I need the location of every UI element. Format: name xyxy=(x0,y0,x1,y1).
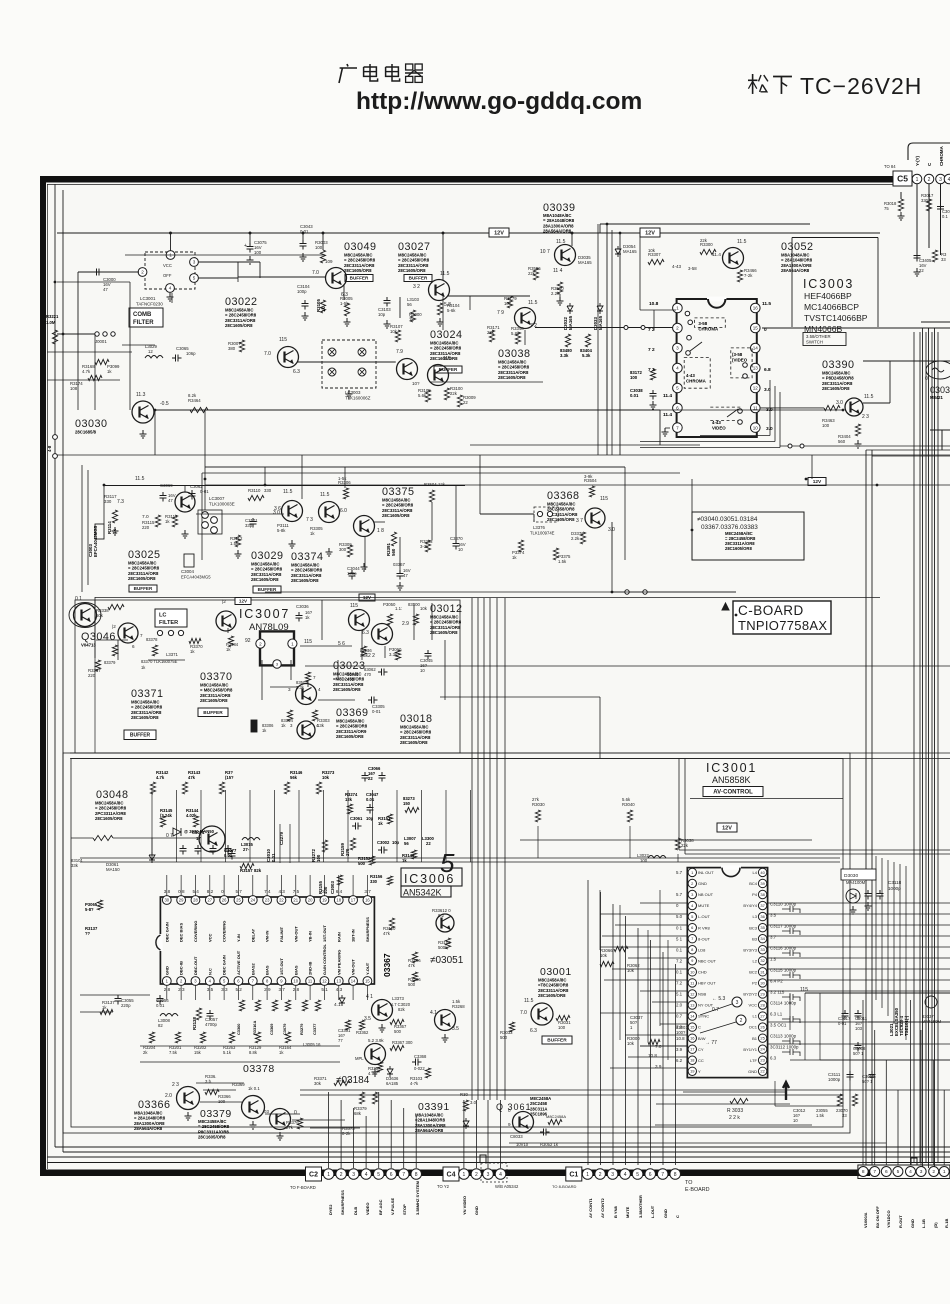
svg-text:22k: 22k xyxy=(487,330,495,335)
filter C3003 rotated xyxy=(95,524,104,539)
svg-text:7: 7 xyxy=(661,1172,664,1178)
svg-text:115: 115 xyxy=(304,639,312,645)
svg-text:CY: CY xyxy=(698,1047,704,1052)
IC3003 switch bottom circles xyxy=(738,409,743,414)
svg-text:10: 10 xyxy=(753,425,759,430)
wire long horizontals above connector xyxy=(300,1089,843,1091)
svg-text:2.9: 2.9 xyxy=(402,621,409,627)
resistor R3100c xyxy=(445,938,450,949)
wire top supply rail 12V xyxy=(57,232,880,234)
svg-text:3-9k: 3-9k xyxy=(584,474,593,479)
svg-text:27-: 27- xyxy=(243,847,250,852)
svg-text:470: 470 xyxy=(347,677,355,682)
svg-text:83379: 83379 xyxy=(104,660,116,665)
svg-text:28C1605/OR8: 28C1605/OR8 xyxy=(538,993,566,998)
svg-text:3.58MHZ SYSTEM: 3.58MHZ SYSTEM xyxy=(415,1180,420,1215)
svg-text:220: 220 xyxy=(88,673,96,678)
svg-text:35: 35 xyxy=(760,925,765,930)
svg-text:3-3k: 3-3k xyxy=(420,544,429,549)
transistor Q3046 shielded xyxy=(74,604,97,627)
svg-text:5.7: 5.7 xyxy=(676,892,683,897)
svg-text:-0.5: -0.5 xyxy=(160,401,169,407)
svg-text:30: 30 xyxy=(760,980,765,985)
svg-text:100: 100 xyxy=(254,250,262,255)
wire Q3035 collector xyxy=(571,233,573,246)
coil L3005 xyxy=(160,1014,178,1017)
svg-text:7 3: 7 3 xyxy=(306,517,313,523)
LC3001 pin 5 xyxy=(190,274,199,283)
svg-text:75: 75 xyxy=(884,206,889,211)
IC3001 top notch xyxy=(721,865,741,869)
transistor Q3051 xyxy=(436,914,454,932)
svg-text:DBC GAIN: DBC GAIN xyxy=(164,922,169,942)
svg-text:3: 3 xyxy=(352,1172,355,1178)
svg-text:YN VIDEO: YN VIDEO xyxy=(462,1196,467,1215)
resistor row y1050 xyxy=(149,1032,154,1043)
connector C1 pins xyxy=(582,1169,593,1180)
svg-text:Y-(Y): Y-(Y) xyxy=(915,155,920,166)
svg-text:1000p: 1000p xyxy=(888,886,901,891)
svg-text:1ST-OUT: 1ST-OUT xyxy=(322,925,327,942)
svg-text:12: 12 xyxy=(753,386,759,391)
svg-text:28A564A/OR8: 28A564A/OR8 xyxy=(415,1128,444,1133)
svg-text:BUFFER: BUFFER xyxy=(258,587,277,592)
svg-text:470: 470 xyxy=(364,672,372,677)
wire 12V rail ic3001 xyxy=(520,839,812,841)
svg-text:LC: LC xyxy=(159,613,166,619)
svg-text:2: 2 xyxy=(340,1172,343,1178)
IC3003 dashed 3-58 video xyxy=(731,348,752,378)
svg-text:18: 18 xyxy=(336,898,341,903)
wire C5 pin risers xyxy=(916,184,918,260)
svg-text:1: 1 xyxy=(586,1172,589,1178)
svg-text:L-OUT: L-OUT xyxy=(698,914,711,919)
svg-text:5: 5 xyxy=(897,1169,900,1175)
svg-text:4: 4 xyxy=(499,1172,502,1178)
svg-text:AN5858K: AN5858K xyxy=(712,775,751,785)
wire right bus verticals from C5 area xyxy=(922,328,924,1168)
wire 2nd row top border xyxy=(202,472,680,474)
buffer tag 03001 xyxy=(542,1036,572,1044)
svg-text:26: 26 xyxy=(222,898,227,903)
svg-text:BX ON OFF: BX ON OFF xyxy=(875,1206,880,1228)
capacitor C3405 xyxy=(914,252,921,262)
connector right strip xyxy=(858,1165,950,1179)
resistor R3361 R3362 xyxy=(345,1020,350,1030)
capacitor C3069 xyxy=(160,492,167,502)
svg-text:MA165: MA165 xyxy=(623,249,637,254)
IC3001 left pins xyxy=(688,868,696,876)
diode box D3030 xyxy=(841,869,876,880)
wire riser bundle right connector xyxy=(862,1000,864,1165)
svg-text:6.8: 6.8 xyxy=(764,367,771,373)
svg-text:115: 115 xyxy=(350,603,358,609)
svg-text:1.5k: 1.5k xyxy=(452,999,461,1004)
svg-text:9: 9 xyxy=(508,1122,511,1127)
wire verticals lower right xyxy=(774,1081,776,1106)
frame inner hairline xyxy=(47,184,893,186)
svg-text:7.5k: 7.5k xyxy=(169,1050,178,1055)
resistor R3465 xyxy=(463,1100,468,1111)
svg-text:27k: 27k xyxy=(532,797,540,802)
wire right bus horizontal joins xyxy=(866,449,950,451)
svg-text:4.02k: 4.02k xyxy=(186,813,197,818)
svg-text:AV·CONTROL: AV·CONTROL xyxy=(713,790,753,796)
resistor R3404b xyxy=(855,424,860,436)
resistor R3206 xyxy=(412,972,417,982)
transistor Q3390 xyxy=(845,398,863,416)
resistor R3009 xyxy=(457,395,462,407)
svg-text:7.0: 7.0 xyxy=(264,351,271,357)
connector C1 box xyxy=(566,1167,582,1181)
wire long mid horizontal xyxy=(305,665,950,667)
svg-text:11.3: 11.3 xyxy=(136,392,146,398)
svg-text:C3115 1000p: C3115 1000p xyxy=(770,968,797,973)
ground row second block xyxy=(182,530,189,538)
capacitor C3008 xyxy=(855,1042,862,1052)
dashed delay line LC3003 box xyxy=(322,340,376,388)
svg-text:28C1605/OR8: 28C1605/OR8 xyxy=(498,375,526,380)
coil L3371 pins xyxy=(157,630,162,635)
svg-text:03052: 03052 xyxy=(781,241,814,253)
svg-text:4.3: 4.3 xyxy=(336,987,343,992)
svg-text:10: 10 xyxy=(690,969,695,974)
svg-text:C: C xyxy=(698,1025,701,1030)
wire comb out to Q3049 xyxy=(237,262,239,277)
small rect pair xyxy=(251,720,257,732)
svg-text:(3.24k: (3.24k xyxy=(160,813,173,818)
svg-text:R3157: R3157 xyxy=(240,868,253,873)
svg-text:6.3 L1: 6.3 L1 xyxy=(770,1012,783,1017)
svg-text:5.2 3.9k: 5.2 3.9k xyxy=(368,1038,384,1043)
svg-text:03012: 03012 xyxy=(430,603,463,615)
svg-text:28C1605/OR8: 28C1605/OR8 xyxy=(547,517,575,522)
IC3003 left pins xyxy=(673,303,683,313)
wire R3033 row xyxy=(683,1091,786,1093)
wire left bus bottom joins xyxy=(55,1146,950,1148)
IC3003 dashed 3-58 chroma xyxy=(695,318,726,328)
svg-text:|2: |2 xyxy=(222,599,226,604)
resistor R3018 xyxy=(898,199,903,211)
svg-text:12V: 12V xyxy=(813,479,822,485)
svg-text:4.7k: 4.7k xyxy=(82,369,91,374)
svg-text:10k: 10k xyxy=(600,953,608,958)
svg-text:TO Y2: TO Y2 xyxy=(437,1184,450,1189)
svg-text:100?: 100? xyxy=(676,1030,686,1035)
svg-text:10 7: 10 7 xyxy=(540,249,550,255)
transistor Q3379b xyxy=(270,1109,291,1130)
svg-text:100p: 100p xyxy=(297,289,307,294)
IC3007 regulator box xyxy=(260,631,294,665)
svg-text:BC3: BC3 xyxy=(749,925,758,930)
wire Q3049 emitter xyxy=(343,285,345,300)
svg-text:1k 0.1: 1k 0.1 xyxy=(248,1086,260,1091)
IC3001 right pin cap symbols xyxy=(782,906,800,913)
svg-text:DBC-OUT: DBC-OUT xyxy=(193,956,198,975)
frame top-right rounded block corner xyxy=(908,143,950,160)
svg-text:28A564A/OR8: 28A564A/OR8 xyxy=(543,229,572,234)
svg-text:25: 25 xyxy=(760,1036,765,1041)
svg-text:BUFFER: BUFFER xyxy=(130,733,151,739)
svg-text:4.1: 4.1 xyxy=(430,1010,437,1016)
svg-text:3.3k: 3.3k xyxy=(560,353,569,358)
svg-text:28C1605/OR8: 28C1605/OR8 xyxy=(336,734,364,739)
svg-text:15: 15 xyxy=(753,326,759,331)
svg-text:MA4100M: MA4100M xyxy=(846,880,866,885)
svg-text:2: 2 xyxy=(259,641,262,646)
svg-text:2.0: 2.0 xyxy=(676,1003,683,1008)
svg-text:24: 24 xyxy=(760,1047,765,1052)
svg-text:BC4: BC4 xyxy=(749,881,758,886)
svg-text:HBY OUT: HBY OUT xyxy=(698,981,716,986)
svg-text:0-01: 0-01 xyxy=(838,1021,847,1026)
svg-text:0: 0 xyxy=(321,889,324,894)
capacitor C3066 cluster xyxy=(362,772,369,782)
svg-text:10k: 10k xyxy=(420,606,428,611)
svg-text:L1: L1 xyxy=(753,1014,758,1019)
svg-text:IC3006: IC3006 xyxy=(404,872,455,886)
svg-text:4-8: 4-8 xyxy=(47,445,52,452)
svg-text:3.8: 3.8 xyxy=(164,889,171,894)
svg-text:C8033: C8033 xyxy=(510,1134,523,1139)
svg-text:GAIN CONTROL: GAIN CONTROL xyxy=(322,944,327,975)
svg-text:C3117 1000p: C3117 1000p xyxy=(770,924,797,929)
svg-text:AN5342K: AN5342K xyxy=(403,888,442,898)
svg-text:C5: C5 xyxy=(897,174,908,184)
svg-text:3-58: 3-58 xyxy=(688,266,697,271)
svg-text:03024: 03024 xyxy=(430,329,463,341)
svg-text:5.7: 5.7 xyxy=(235,889,242,894)
svg-text:C2: C2 xyxy=(309,1172,318,1179)
svg-text:28A564A/OR8: 28A564A/OR8 xyxy=(134,1126,163,1131)
svg-text:500: 500 xyxy=(394,1029,402,1034)
svg-text:6: 6 xyxy=(885,1169,888,1175)
svg-text:500: 500 xyxy=(408,982,416,987)
svg-text:CC: CC xyxy=(698,1058,704,1063)
svg-text:7.0: 7.0 xyxy=(655,1044,662,1049)
svg-text:560: 560 xyxy=(391,548,396,556)
resistor R3101 xyxy=(93,835,113,840)
svg-text:CHROMA: CHROMA xyxy=(698,327,719,332)
svg-text:SYNC: SYNC xyxy=(698,1014,709,1019)
svg-text:21: 21 xyxy=(293,898,298,903)
svg-text:28C1605/OR8: 28C1605/OR8 xyxy=(725,546,752,551)
svg-text:NBC OUT: NBC OUT xyxy=(698,958,717,963)
ground Q3030 xyxy=(140,430,147,438)
svg-text:1: 1 xyxy=(676,306,679,311)
svg-text:3.9: 3.9 xyxy=(676,1047,683,1052)
transistor Q3038a xyxy=(515,308,536,329)
resistor R3040 xyxy=(627,810,632,822)
svg-text:+: + xyxy=(244,243,247,249)
svg-text:0.7: 0.7 xyxy=(676,1014,683,1019)
svg-text:28C1605/OR8: 28C1605/OR8 xyxy=(822,386,850,391)
svg-text:BIAS2: BIAS2 xyxy=(250,962,255,975)
resistor R3038 xyxy=(675,838,680,850)
transistor Q3001 xyxy=(531,1003,553,1025)
svg-text:R3110: R3110 xyxy=(248,488,261,493)
capacitor C3045 xyxy=(425,650,432,660)
svg-text:IC3007: IC3007 xyxy=(239,607,290,621)
wire J0001 row xyxy=(57,333,95,335)
resistor R3373 xyxy=(372,1092,377,1104)
svg-text:3.0: 3.0 xyxy=(470,1100,477,1105)
tag 12V boxed mid xyxy=(808,478,826,486)
svg-text:COVERING: COVERING xyxy=(193,921,198,942)
resistor R3107 xyxy=(395,330,400,342)
svg-text:D3030: D3030 xyxy=(844,873,858,879)
svg-text:BUFFER: BUFFER xyxy=(409,276,428,281)
resistor R3309 xyxy=(347,545,352,557)
svg-text:77: 77 xyxy=(338,1038,343,1043)
svg-text:33k: 33k xyxy=(71,863,79,868)
capacitor C3071 C3072 C3073 row xyxy=(180,845,187,855)
resistor R3377b xyxy=(112,645,117,656)
svg-text:11.5: 11.5 xyxy=(440,271,450,277)
svg-text:32: 32 xyxy=(760,958,765,963)
transistor Q3022 xyxy=(278,347,299,368)
svg-text:TLK100003E: TLK100003E xyxy=(209,502,235,507)
svg-text:15: 15 xyxy=(690,1025,695,1030)
transistor Q3024 xyxy=(428,365,449,386)
svg-text:3: 3 xyxy=(676,346,679,351)
resistor R3061 xyxy=(548,1119,562,1124)
resistor R3017 xyxy=(926,199,931,211)
IC3001 outer bus rect xyxy=(679,849,950,851)
wire second row horizontals xyxy=(196,513,284,515)
svg-text:VCC: VCC xyxy=(207,933,212,942)
svg-text:3: 3 xyxy=(939,177,942,183)
resistor R3300 xyxy=(700,249,716,254)
svg-text:2ND-IB: 2ND-IB xyxy=(308,962,313,975)
svg-text:0.2: 0.2 xyxy=(438,913,445,918)
svg-text:7: 7 xyxy=(873,1169,876,1175)
svg-text:100: 100 xyxy=(315,245,323,250)
wire mid vertical bundle xyxy=(471,598,473,1100)
wire C2 pin risers xyxy=(328,1092,330,1168)
svg-text:|2: |2 xyxy=(112,624,116,629)
svg-text:AY CONT1: AY CONT1 xyxy=(588,1197,593,1218)
svg-text:03018: 03018 xyxy=(400,713,433,725)
wire long video rail xyxy=(155,409,660,411)
dashed coil box L3376 xyxy=(534,507,558,522)
svg-text:22k: 22k xyxy=(528,271,536,276)
svg-text:4-43: 4-43 xyxy=(686,373,695,378)
svg-text:C3061: C3061 xyxy=(350,816,363,821)
svg-text:BY3/Y3: BY3/Y3 xyxy=(743,947,757,952)
svg-text:R VR8: R VR8 xyxy=(698,925,711,930)
svg-text:03027: 03027 xyxy=(398,241,431,253)
svg-text:1ST-OUT: 1ST-OUT xyxy=(279,958,284,975)
buffer tag 03024 xyxy=(434,366,462,373)
resistor R3031 xyxy=(556,1015,570,1020)
svg-text:0.01: 0.01 xyxy=(271,853,276,862)
resistor P3060 xyxy=(395,650,400,660)
svg-text:28A564A/OR8: 28A564A/OR8 xyxy=(781,268,810,273)
transistor Q3374 xyxy=(319,502,340,523)
svg-text:4.7k: 4.7k xyxy=(156,775,165,780)
svg-text:5.4: 5.4 xyxy=(192,889,199,894)
svg-text:2 2: 2 2 xyxy=(368,653,375,659)
svg-text:LTF: LTF xyxy=(750,1058,757,1063)
tag 12V boxed right xyxy=(640,228,660,237)
svg-text:0: 0 xyxy=(508,1108,511,1113)
svg-text:100: 100 xyxy=(630,375,638,380)
svg-text:47k: 47k xyxy=(383,931,391,936)
resistor R3466 xyxy=(737,270,742,282)
svg-text:E·BOARD: E·BOARD xyxy=(685,1187,710,1193)
svg-text:Y/V1DCO: Y/V1DCO xyxy=(886,1210,891,1228)
svg-text:220: 220 xyxy=(142,525,150,530)
transistor Q3370 xyxy=(216,611,236,631)
svg-text:13: 13 xyxy=(753,366,759,371)
svg-text:R 3033: R 3033 xyxy=(727,1108,743,1114)
svg-text:3.5: 3.5 xyxy=(207,987,214,992)
svg-text:4700p: 4700p xyxy=(205,1022,218,1027)
svg-text:10k: 10k xyxy=(390,329,398,334)
svg-text:15: 15 xyxy=(365,979,370,984)
svg-text:L3371: L3371 xyxy=(166,652,179,657)
svg-text:BIAS: BIAS xyxy=(265,965,270,975)
C4 dashed box xyxy=(481,1163,507,1182)
svg-text:1k: 1k xyxy=(402,858,407,863)
svg-text:12k: 12k xyxy=(345,797,353,802)
transistor Q3012b xyxy=(349,610,370,631)
tag 12V third row xyxy=(235,598,251,605)
transistor Q3035 xyxy=(555,245,576,266)
svg-text:FILTER: FILTER xyxy=(133,320,154,326)
left bus joints xyxy=(53,435,58,440)
svg-text:C3118: C3118 xyxy=(888,880,902,885)
IC3003 top notch xyxy=(707,297,726,302)
svg-text:10V10: 10V10 xyxy=(516,1142,529,1147)
svg-text:MPL: MPL xyxy=(355,1056,364,1061)
svg-text:03366: 03366 xyxy=(138,1099,171,1111)
svg-text:5: 5 xyxy=(676,386,679,391)
svg-text:3: 3 xyxy=(288,687,291,692)
IC3003 outline box xyxy=(792,236,879,238)
callout circle 2 xyxy=(736,1015,746,1025)
svg-text:L4: L4 xyxy=(753,870,758,875)
callout circle 3 xyxy=(732,997,742,1007)
resistor bank below IC3006 xyxy=(239,1000,244,1011)
svg-text:0303: 0303 xyxy=(930,385,950,395)
capacitor C3017 C3011 xyxy=(842,1010,849,1020)
svg-text:50k: 50k xyxy=(96,613,104,618)
wire second row verticals xyxy=(103,485,105,524)
svg-text:R3221: R3221 xyxy=(46,314,59,319)
svg-text:26: 26 xyxy=(760,1025,765,1030)
svg-text:31: 31 xyxy=(760,969,765,974)
resistor R3136 xyxy=(361,646,366,656)
svg-text:5.3k: 5.3k xyxy=(582,353,591,358)
svg-text:TSE101(-): TSE101(-) xyxy=(904,1015,909,1036)
svg-text:20: 20 xyxy=(308,898,313,903)
coil L3015 xyxy=(242,838,260,841)
svg-text:23: 23 xyxy=(760,1058,765,1063)
svg-text:OC1: OC1 xyxy=(749,1025,758,1030)
svg-text:10: 10 xyxy=(420,668,425,673)
svg-text:3: 3 xyxy=(920,1169,923,1175)
resistor R3106 xyxy=(412,952,417,963)
svg-text:150: 150 xyxy=(403,801,411,806)
svg-text:30k: 30k xyxy=(314,1081,322,1086)
svg-text:12V: 12V xyxy=(494,230,504,236)
capacitor C3065 xyxy=(172,355,182,362)
svg-text:TAFNCF0230: TAFNCF0230 xyxy=(136,302,163,307)
svg-text:11.5: 11.5 xyxy=(737,239,747,245)
svg-text:1: 1 xyxy=(291,641,294,646)
